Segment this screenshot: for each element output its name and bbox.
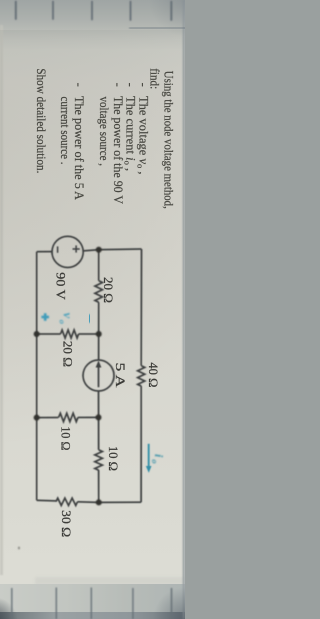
wire bottom rail [36, 252, 38, 501]
svg-text:The power of the 5 A: The power of the 5 A [72, 96, 86, 200]
current source 5A arrow [96, 360, 102, 387]
node A (source top) [96, 247, 102, 253]
wire 10ohm column top [78, 416, 99, 418]
resistor 10ohm mid zigzag [59, 413, 78, 421]
resistor 40ohm zigzag [138, 366, 145, 386]
svg-text:-: - [124, 83, 138, 87]
wire right column lower [37, 499, 56, 502]
teal annotation: vo label [58, 313, 75, 324]
svg-text:40 Ω: 40 Ω [146, 362, 160, 387]
current io arrow [146, 444, 152, 473]
svg-text:10 Ω: 10 Ω [59, 426, 73, 450]
svg-text:o: o [150, 459, 160, 463]
paper background [0, 0, 185, 619]
wire middle rail seg2 [98, 302, 100, 360]
corner shadow bottom-right [0, 585, 30, 619]
wire middle rail seg3 [98, 391, 100, 450]
svg-text:-: - [137, 83, 151, 87]
svg-text:voltage source ,: voltage source , [97, 97, 111, 167]
top photo edge [183, 0, 185, 619]
svg-text:Show detailed solution.: Show detailed solution. [34, 68, 48, 173]
svg-text:20 Ω: 20 Ω [60, 341, 74, 367]
svg-text:current source .: current source . [58, 97, 72, 165]
component value labels [53, 272, 160, 537]
current source 5A circle [83, 360, 114, 391]
corner shadow top-right [140, 575, 185, 619]
wire top rail left segment [140, 249, 142, 366]
svg-text:5 A: 5 A [113, 363, 128, 389]
right paper edge shadow [35, 577, 185, 585]
svg-text:The voltage vo ,: The voltage vo , [136, 96, 151, 175]
node D (right mid) [96, 499, 102, 505]
svg-text:v: v [61, 313, 75, 319]
svg-text:The power of the 90 V: The power of the 90 V [111, 96, 125, 204]
wire middle rail seg1 [98, 250, 100, 281]
problem text [34, 68, 176, 209]
wire left column top [83, 249, 141, 251]
wire 10ohm column bottom [37, 417, 59, 419]
node B (vo top) [96, 331, 102, 337]
node C (10ohm top) [96, 414, 102, 420]
teal annotation: vo minus [88, 314, 91, 323]
resistor 30ohm zigzag [56, 498, 78, 505]
ruled notebook lines, left edge [16, 2, 172, 21]
node E (vo bottom) [34, 331, 40, 337]
wire left column bottom [37, 251, 52, 253]
voltage source 90V circle [52, 236, 83, 267]
resistor 10ohm right zigzag [95, 450, 103, 470]
paper speck [18, 547, 20, 550]
right notebook band [0, 584, 185, 612]
svg-text:o: o [58, 320, 68, 324]
node F (10ohm bottom) [34, 415, 40, 421]
bottom paper shade [0, 25, 3, 575]
paper shading (photo vignette) [0, 0, 1, 1]
resistor 20ohm vo zigzag [61, 330, 79, 338]
junction node dots [34, 247, 102, 506]
notebook margin line top-left [129, 27, 187, 29]
circuit [37, 236, 145, 505]
svg-text:-: - [111, 83, 125, 87]
svg-text:10 Ω: 10 Ω [106, 446, 120, 471]
wire top rail right segment [140, 386, 142, 502]
label io [150, 454, 166, 464]
voltage source plus sign [58, 245, 80, 252]
ruled notebook lines, right edge [12, 588, 172, 619]
svg-text:Using the node voltage method,: Using the node voltage method, [161, 71, 175, 209]
corner shadow top-left [130, 0, 185, 60]
right dark edge [0, 612, 185, 619]
wire middle rail seg4 [98, 470, 100, 502]
wire vo column top [79, 333, 99, 335]
svg-text:20 Ω: 20 Ω [101, 277, 115, 303]
wire right column upper [78, 501, 142, 504]
teal annotation: vo plus [41, 313, 49, 321]
svg-text:30 Ω: 30 Ω [59, 510, 73, 537]
wire vo column bottom [37, 333, 61, 335]
voltage source minus sign [57, 246, 59, 252]
svg-text:-: - [72, 83, 86, 87]
svg-text:90 V: 90 V [53, 272, 67, 300]
resistor 20ohm top zigzag [95, 281, 102, 303]
